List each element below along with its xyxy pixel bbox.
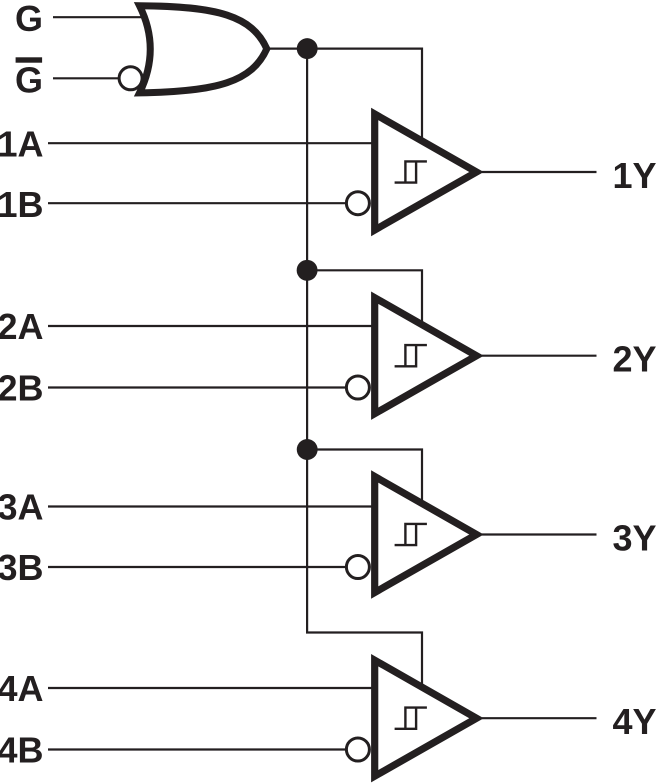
node 1B label xyxy=(0,184,44,225)
wire input 2A xyxy=(48,325,376,327)
wire input 2B xyxy=(48,386,346,388)
wire input 3B xyxy=(48,566,346,568)
wire input 4B xyxy=(48,748,346,750)
buffer U5 (Schmitt-trigger multiplexer triangle, channel 4) xyxy=(375,660,477,776)
node 2A label xyxy=(0,306,44,347)
wire OR gate output to buffer 1 control (select line) xyxy=(264,49,422,141)
hysteresis symbol inside U4 xyxy=(395,524,427,545)
svg-text:G: G xyxy=(15,60,43,101)
inverting bubble on G-bar input of OR gate U1 xyxy=(119,67,142,90)
svg-text:4A: 4A xyxy=(0,668,44,709)
svg-text:G: G xyxy=(15,0,43,39)
node 3Y label xyxy=(612,518,656,559)
svg-text:1Y: 1Y xyxy=(612,155,656,196)
wire input 4A xyxy=(48,687,376,689)
buffer U4 (Schmitt-trigger multiplexer triangle, channel 3) xyxy=(375,477,477,593)
inverting bubble on 4B input of U5 xyxy=(346,738,369,761)
inverting bubble on 3B input of U4 xyxy=(346,556,369,579)
buffer U2 (Schmitt-trigger multiplexer triangle, channel 1) xyxy=(375,114,477,230)
junction dot node 3 (rail to buffer 3 control) xyxy=(297,439,318,460)
inverting bubble on 1B input of U2 xyxy=(346,192,369,215)
svg-text:4Y: 4Y xyxy=(612,701,656,742)
wire output 2Y xyxy=(482,355,597,357)
wire output 4Y xyxy=(482,717,597,719)
node 3A label xyxy=(0,487,44,528)
svg-text:2A: 2A xyxy=(0,306,44,347)
node 2B label xyxy=(0,368,44,409)
svg-text:2Y: 2Y xyxy=(612,339,656,380)
node 1A label xyxy=(0,124,44,165)
wire G input to OR gate xyxy=(53,16,148,18)
wire input 3A xyxy=(48,505,376,507)
hysteresis symbol inside U2 xyxy=(395,161,427,182)
node 3B label xyxy=(0,547,44,588)
wire G-bar input to inverting bubble xyxy=(53,77,120,79)
node 4Y label xyxy=(612,701,656,742)
hysteresis symbol inside U5 xyxy=(395,708,427,729)
junction dot node 1 (OR output to rail) xyxy=(297,38,318,59)
node G (enable input label) xyxy=(15,0,43,39)
svg-text:2B: 2B xyxy=(0,368,44,409)
node G-bar (inverted enable input label with overline) xyxy=(15,57,43,100)
node 4B label xyxy=(0,730,44,771)
wire vertical select rail from node to buffer 4 control xyxy=(307,49,422,687)
wire output 1Y xyxy=(482,171,597,173)
inverting bubble on 2B input of U3 xyxy=(346,376,369,399)
svg-text:3Y: 3Y xyxy=(612,518,656,559)
buffer U3 (Schmitt-trigger multiplexer triangle, channel 2) xyxy=(375,298,477,414)
svg-text:1A: 1A xyxy=(0,124,44,165)
node 4A label xyxy=(0,668,44,709)
wire output 3Y xyxy=(482,533,597,535)
wire select rail branch to buffer 3 control xyxy=(307,450,422,505)
OR gate U1 (enable gate, G OR not-G-bar) xyxy=(140,6,267,93)
wire input 1B xyxy=(48,202,346,204)
junction dot node 2 (rail to buffer 2 control) xyxy=(297,260,318,281)
hysteresis symbol inside U3 xyxy=(395,345,427,366)
svg-text:1B: 1B xyxy=(0,184,44,225)
wire input 1A xyxy=(48,142,376,144)
svg-text:3A: 3A xyxy=(0,487,44,528)
svg-text:4B: 4B xyxy=(0,730,44,771)
node 2Y label xyxy=(612,339,656,380)
svg-text:3B: 3B xyxy=(0,547,44,588)
node 1Y label xyxy=(612,155,656,196)
wire select rail branch to buffer 2 control xyxy=(307,270,422,325)
